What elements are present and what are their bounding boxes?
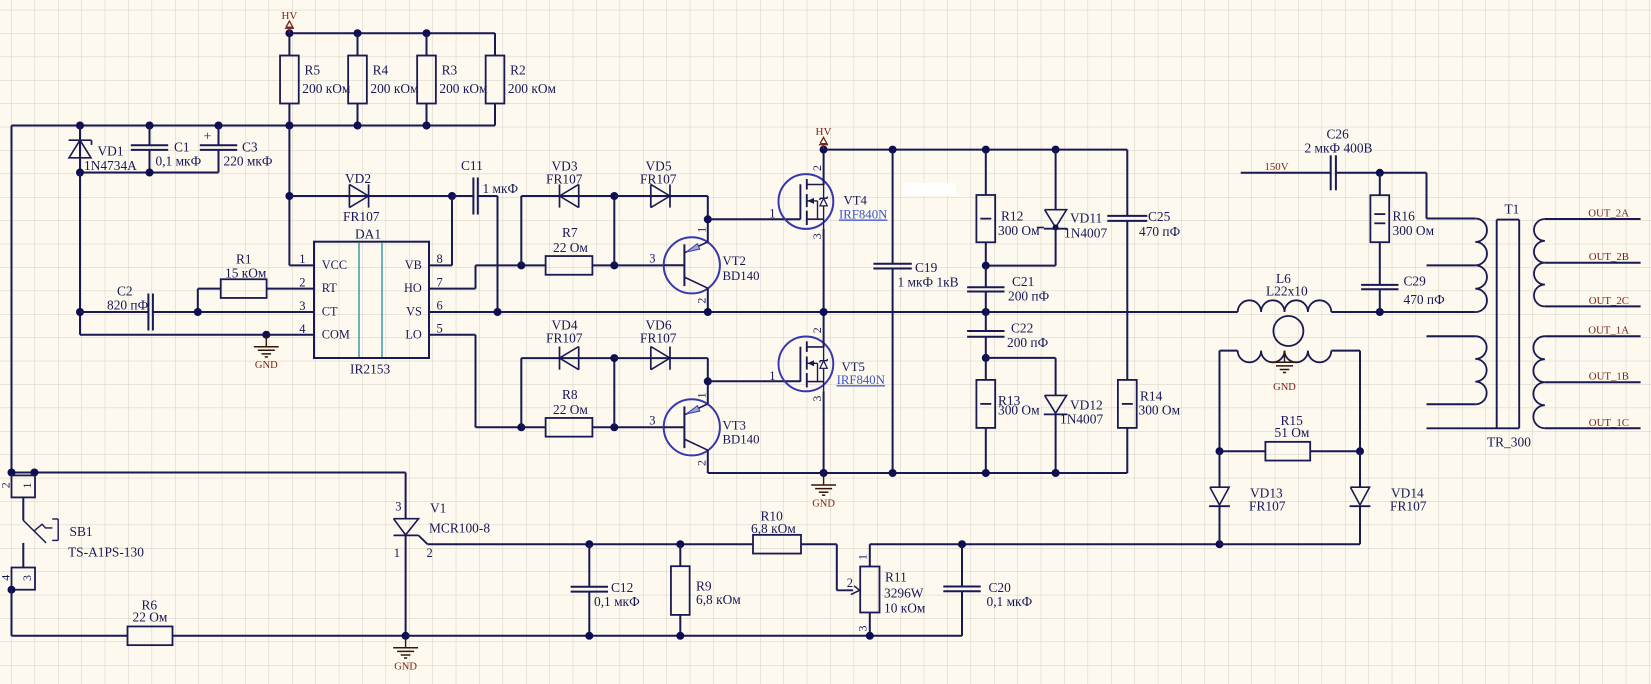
resistor R4 (348, 33, 419, 125)
diode VD11 1N4007 (982, 150, 1108, 270)
svg-text:6: 6 (437, 298, 443, 312)
svg-text:FR107: FR107 (640, 172, 677, 187)
wire HO net (429, 196, 560, 289)
svg-text:6,8 кОм: 6,8 кОм (696, 592, 741, 607)
transformer T1 primary winding upper (1427, 219, 1488, 313)
svg-text:C22: C22 (1011, 321, 1033, 336)
svg-text:1: 1 (299, 252, 305, 266)
wire VT4 source to VS (823, 229, 825, 312)
svg-text:FR107: FR107 (343, 209, 380, 224)
capacitor C29 (1361, 274, 1445, 313)
trimmer R11 3296W (837, 544, 926, 636)
wire GND bus (708, 469, 1128, 477)
svg-text:R8: R8 (562, 387, 578, 402)
svg-text:3296W: 3296W (884, 586, 924, 601)
svg-text:15 кОм: 15 кОм (225, 266, 267, 281)
svg-text:5: 5 (437, 322, 443, 336)
svg-text:220 мкФ: 220 мкФ (224, 154, 273, 169)
svg-text:R1: R1 (236, 252, 252, 267)
svg-text:HV: HV (816, 126, 832, 138)
transistor VT3 BD140 (649, 392, 759, 473)
svg-text:200 кОм: 200 кОм (302, 81, 351, 96)
svg-text:C29: C29 (1404, 274, 1427, 289)
svg-text:C21: C21 (1012, 274, 1034, 289)
svg-text:R16: R16 (1393, 209, 1416, 224)
diode VD12 1N4007 (1044, 358, 1104, 473)
svg-text:6,8 кОм: 6,8 кОм (751, 521, 796, 536)
ground symbol at V1 (393, 632, 418, 673)
resistor R3 (417, 33, 488, 125)
diode VD6 (614, 318, 708, 370)
svg-text:3: 3 (395, 500, 401, 514)
capacitor C26 (1305, 127, 1427, 191)
wire VD4-R8 junction vertical (610, 354, 618, 427)
svg-text:200 пФ: 200 пФ (1007, 335, 1049, 350)
svg-text:4: 4 (299, 322, 306, 336)
MOSFET VT4 IRF840N (769, 165, 887, 239)
wire HV top bus (285, 29, 495, 55)
svg-text:300 Ом: 300 Ом (1139, 403, 1181, 418)
svg-text:200 пФ: 200 пФ (1008, 289, 1050, 304)
capacitor C1 (131, 126, 202, 173)
wire VCC vertical to pin1 and VD2 (285, 126, 314, 266)
svg-text:1: 1 (769, 207, 775, 221)
wire VB net (429, 192, 456, 265)
svg-text:300 Ом: 300 Ом (1393, 223, 1435, 238)
svg-text:FR107: FR107 (546, 172, 583, 187)
wire VD3-R7 junction vertical (610, 192, 618, 265)
zener diode VD1 (69, 126, 138, 174)
svg-text:51 Ом: 51 Ом (1275, 425, 1310, 440)
ground symbol at L6 (1272, 351, 1297, 393)
wire R11 pin1 output net (870, 540, 1224, 548)
wire ground net left (76, 169, 314, 339)
svg-text:22 Ом: 22 Ом (133, 610, 168, 625)
resistor R8 (521, 387, 664, 437)
svg-text:3: 3 (810, 233, 824, 239)
wire L6 second winding to R15 (1220, 351, 1361, 452)
svg-text:2: 2 (0, 482, 12, 488)
inductor L6 L22x10 common-mode choke (1238, 271, 1332, 362)
svg-text:3: 3 (649, 252, 655, 266)
svg-text:FR107: FR107 (1390, 499, 1427, 514)
svg-text:VT2: VT2 (723, 254, 746, 268)
svg-text:3: 3 (20, 575, 34, 581)
wire VT4 gate net (704, 196, 801, 242)
diode VD4 (546, 318, 614, 370)
svg-text:DA1: DA1 (355, 227, 381, 242)
svg-text:OUT_2A: OUT_2A (1588, 208, 1629, 220)
resistor R9 (671, 544, 741, 636)
svg-text:1 мкФ 1кВ: 1 мкФ 1кВ (898, 275, 959, 290)
capacitor C20 (943, 544, 1032, 636)
svg-text:470 пФ: 470 пФ (1139, 224, 1181, 239)
wire VT4 drain to HV (820, 146, 828, 185)
svg-text:LO: LO (405, 328, 422, 342)
svg-text:1 мкФ: 1 мкФ (483, 181, 519, 196)
wire OUT_1A (1545, 325, 1641, 337)
capacitor C19 (873, 150, 958, 473)
svg-text:R2: R2 (510, 63, 526, 78)
wire to transformer primary top (1427, 173, 1476, 219)
HV power symbol (281, 10, 297, 33)
svg-text:SB1: SB1 (70, 524, 93, 539)
capacitor C2 (80, 284, 198, 331)
transformer T1 primary winding lower (1427, 336, 1487, 404)
svg-text:MCR100-8: MCR100-8 (429, 521, 490, 536)
svg-text:OUT_1A: OUT_1A (1588, 325, 1629, 337)
IC DA1 IR2153 (314, 227, 429, 377)
svg-text:1: 1 (694, 392, 708, 398)
svg-text:HO: HO (404, 281, 422, 295)
svg-text:0,1 мкФ: 0,1 мкФ (156, 154, 202, 169)
resistor R6 (128, 598, 406, 646)
resistor R5 (280, 33, 351, 125)
svg-text:10 кОм: 10 кОм (884, 601, 926, 616)
svg-text:L22x10: L22x10 (1266, 284, 1308, 299)
resistor R15 (1216, 413, 1365, 461)
svg-text:2: 2 (694, 298, 708, 304)
svg-text:COM: COM (322, 328, 350, 342)
svg-text:2: 2 (694, 460, 708, 466)
transistor VT2 BD140 (649, 227, 759, 312)
svg-text:2: 2 (810, 165, 824, 171)
wire 150V net (1241, 161, 1331, 173)
svg-text:300 Ом: 300 Ом (998, 223, 1040, 238)
svg-text:VT3: VT3 (723, 419, 746, 433)
capacitor C12 (571, 544, 640, 636)
svg-text:7: 7 (437, 275, 443, 289)
svg-text:OUT_1B: OUT_1B (1589, 371, 1629, 383)
svg-text:150V: 150V (1265, 161, 1289, 173)
svg-text:1: 1 (20, 483, 34, 489)
resistor R10 (751, 509, 837, 591)
svg-text:R5: R5 (305, 63, 321, 78)
transformer T1 core (1427, 202, 1532, 450)
svg-text:1N4734A: 1N4734A (84, 158, 137, 173)
transformer T1 secondary winding lower (1533, 336, 1545, 428)
svg-text:C19: C19 (915, 260, 938, 275)
svg-text:820 пФ: 820 пФ (107, 298, 149, 313)
svg-text:4: 4 (0, 575, 12, 581)
capacitor C22 (967, 312, 1048, 358)
diode VD5 (614, 159, 708, 208)
white patch (903, 183, 956, 196)
svg-text:1: 1 (856, 554, 870, 560)
svg-text:1N4007: 1N4007 (1064, 226, 1107, 241)
svg-text:FR107: FR107 (546, 331, 583, 346)
svg-text:0,1 мкФ: 0,1 мкФ (594, 594, 640, 609)
svg-text:FR107: FR107 (640, 331, 677, 346)
svg-text:IRF840N: IRF840N (839, 208, 887, 222)
svg-text:VCC: VCC (322, 258, 347, 272)
wire node B (982, 354, 1056, 362)
svg-text:3: 3 (649, 414, 655, 428)
ground symbol main (823, 473, 825, 485)
svg-text:300 Ом: 300 Ом (998, 403, 1040, 418)
svg-text:R12: R12 (1001, 209, 1023, 224)
svg-text:HV: HV (281, 10, 297, 22)
svg-text:RT: RT (322, 281, 337, 295)
svg-text:22 Ом: 22 Ом (553, 402, 588, 417)
connector SB1 pins 3-4 (0, 568, 35, 594)
svg-text:1: 1 (769, 369, 775, 383)
diode VD2 (289, 171, 452, 224)
svg-text:CT: CT (322, 304, 338, 318)
svg-text:V1: V1 (430, 501, 446, 516)
resistor R2 (486, 33, 557, 125)
svg-text:1N4007: 1N4007 (1060, 412, 1103, 427)
wire left vertical (VCC to SB1) (11, 126, 13, 476)
svg-text:VS: VS (406, 304, 422, 318)
wire SB1 to bottom bus (12, 590, 128, 636)
wire SB1 to V1 gate net (8, 469, 406, 519)
resistor R14 (1118, 380, 1181, 473)
resistor R7 (521, 225, 664, 275)
svg-text:R14: R14 (1140, 389, 1163, 404)
svg-text:R3: R3 (442, 63, 458, 78)
wire VCC rail (12, 122, 496, 130)
resistor R12 (976, 150, 1040, 266)
wire HV right bus (823, 146, 1128, 154)
capacitor C21 (967, 266, 1049, 312)
svg-text:VB: VB (405, 258, 422, 272)
svg-text:OUT_2C: OUT_2C (1589, 295, 1629, 307)
capacitor C3 (electrolytic) (200, 126, 273, 173)
svg-text:1: 1 (694, 227, 708, 233)
svg-text:GND: GND (255, 360, 278, 371)
svg-text:2 мкФ 400В: 2 мкФ 400В (1305, 141, 1373, 156)
svg-text:IRF840N: IRF840N (837, 373, 885, 387)
wire VS midpoint net (429, 308, 1238, 316)
connector SB1 pins 1-2 (0, 475, 35, 497)
svg-text:8: 8 (437, 252, 443, 266)
svg-text:R7: R7 (562, 225, 578, 240)
svg-text:C11: C11 (461, 158, 483, 173)
wire VS after L6 (1331, 308, 1475, 316)
svg-text:GND: GND (1273, 382, 1296, 393)
svg-text:+: + (204, 130, 212, 145)
svg-text:C1: C1 (174, 140, 190, 155)
ground symbol at COM (265, 335, 267, 347)
svg-text:C26: C26 (1327, 127, 1350, 142)
svg-text:R11: R11 (885, 570, 907, 585)
svg-text:T1: T1 (1505, 202, 1520, 217)
svg-text:2: 2 (810, 327, 824, 333)
diode VD14 (1220, 451, 1427, 544)
svg-text:R4: R4 (373, 63, 389, 78)
svg-text:BD140: BD140 (723, 433, 760, 447)
wire OUT_2B (1545, 251, 1641, 263)
svg-text:200 кОм: 200 кОм (370, 81, 419, 96)
svg-text:VD12: VD12 (1070, 398, 1103, 413)
svg-text:200 кОм: 200 кОм (508, 81, 557, 96)
svg-text:IR2153: IR2153 (350, 362, 390, 377)
svg-text:2: 2 (299, 275, 305, 289)
svg-text:C25: C25 (1148, 209, 1171, 224)
svg-text:3: 3 (810, 396, 824, 402)
svg-text:VD1: VD1 (98, 144, 124, 159)
svg-text:TS-A1PS-130: TS-A1PS-130 (68, 545, 144, 560)
svg-text:GND: GND (394, 661, 417, 672)
wire OUT_2A (1545, 208, 1641, 220)
svg-text:OUT_1C: OUT_1C (1589, 417, 1629, 429)
svg-text:2: 2 (847, 576, 853, 590)
svg-text:C20: C20 (989, 580, 1012, 595)
svg-text:C3: C3 (242, 140, 258, 155)
wire bottom bus (406, 591, 962, 640)
transformer T1 secondary winding upper (1534, 219, 1545, 306)
HV power symbol right (816, 126, 832, 149)
svg-text:VD2: VD2 (345, 171, 371, 186)
svg-text:GND: GND (812, 499, 835, 510)
capacitor C25 (1107, 150, 1180, 380)
switch SB1 TS-A1PS-130 (23, 497, 144, 567)
wire LO net (429, 335, 560, 432)
thyristor V1 MCR100-8 (394, 500, 491, 636)
svg-text:470 пФ: 470 пФ (1404, 292, 1446, 307)
wire VT5 gate net (704, 358, 801, 404)
svg-text:200 кОм: 200 кОм (439, 81, 488, 96)
wire V1 cathode feedback net (428, 540, 754, 548)
svg-text:VT4: VT4 (844, 194, 868, 208)
svg-text:BD140: BD140 (723, 269, 760, 283)
svg-text:3: 3 (856, 626, 870, 632)
svg-text:C12: C12 (611, 580, 633, 595)
svg-text:TR_300: TR_300 (1487, 435, 1531, 450)
svg-text:VT5: VT5 (842, 360, 865, 374)
capacitor C11 (452, 158, 519, 312)
svg-text:3: 3 (299, 299, 305, 313)
MOSFET VT5 IRF840N (769, 327, 885, 401)
resistor R1 (198, 252, 314, 313)
wire CT to chip (194, 308, 314, 316)
diode VD3 (546, 159, 614, 208)
wire VT5 source to GND (823, 391, 825, 473)
wire OUT_1C (1545, 417, 1641, 429)
wire VT5 drain to VS (823, 312, 825, 347)
resistor R13 (976, 358, 1040, 473)
resistor R16 (1370, 173, 1434, 285)
diode VD13 (1209, 451, 1286, 544)
svg-text:VD11: VD11 (1070, 211, 1102, 226)
wire OUT_1B (1545, 371, 1641, 383)
svg-text:0,1 мкФ: 0,1 мкФ (987, 594, 1033, 609)
svg-text:22 Ом: 22 Ом (553, 240, 588, 255)
wire OUT_2C (1545, 295, 1641, 307)
svg-text:2: 2 (427, 546, 433, 560)
svg-text:FR107: FR107 (1249, 499, 1286, 514)
svg-text:OUT_2B: OUT_2B (1589, 251, 1629, 263)
svg-text:1: 1 (394, 546, 400, 560)
svg-text:C2: C2 (117, 284, 133, 299)
